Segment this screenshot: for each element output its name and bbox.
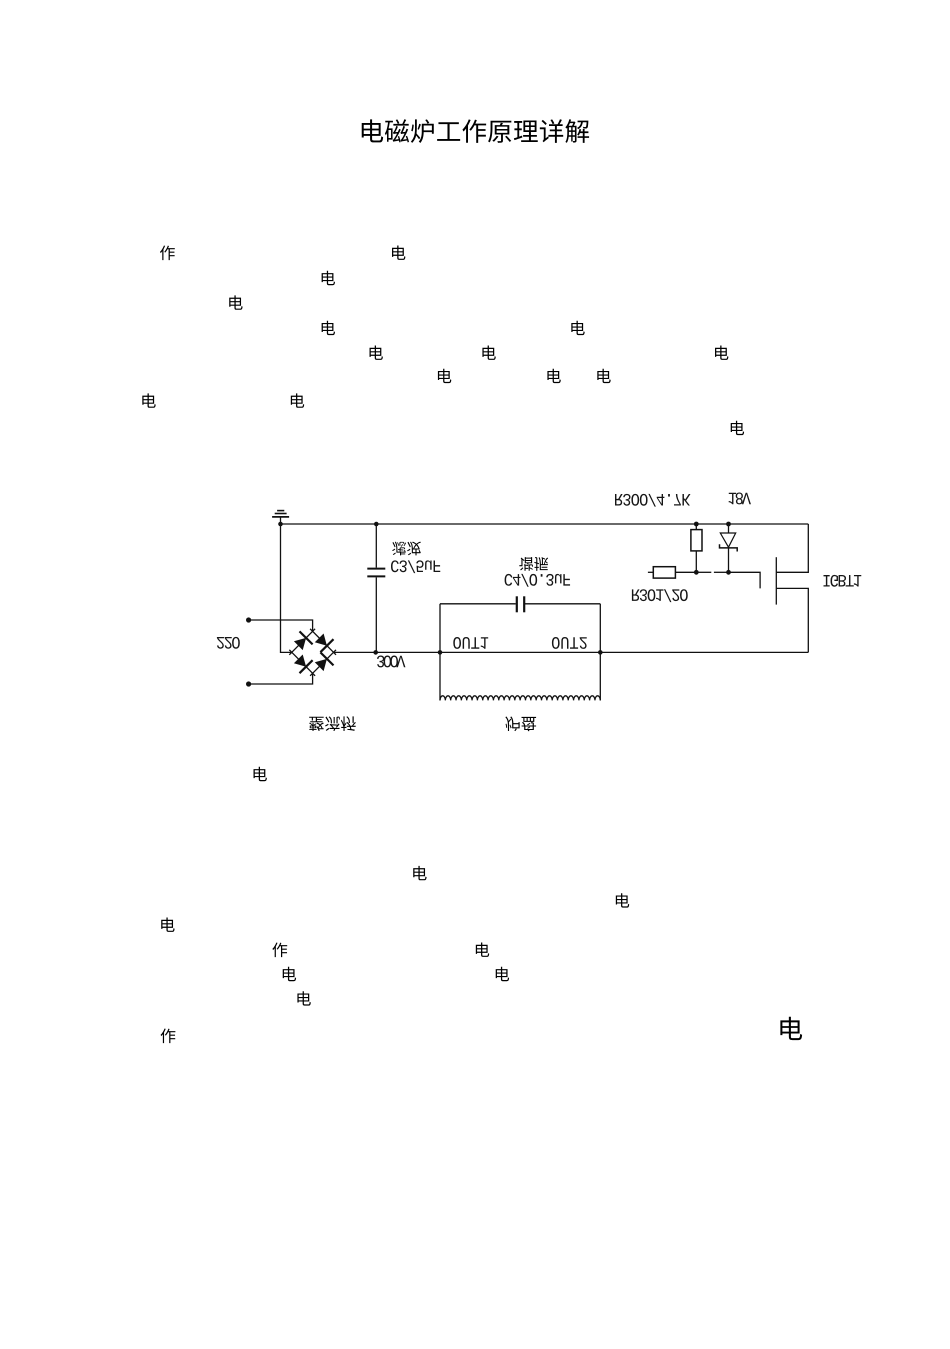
body text large 电 bbox=[780, 1017, 802, 1040]
node: zener top bbox=[726, 522, 731, 527]
label R301/20 (flipped) bbox=[632, 589, 688, 602]
node: 300V junction bbox=[373, 650, 378, 655]
label 炉盘 (flipped) bbox=[505, 716, 536, 731]
node: gate zener bbox=[726, 570, 731, 575]
label 220 (AC input, flipped) bbox=[217, 637, 240, 649]
ground bbox=[272, 511, 289, 524]
document title 电磁炉工作原理详解 bbox=[362, 119, 589, 143]
node: C3 top bbox=[374, 522, 379, 527]
node: tank right bbox=[598, 650, 603, 655]
wire: top rail bbox=[281, 523, 809, 525]
label 滤波 (flipped) bbox=[392, 542, 421, 556]
node: gate R300 bbox=[694, 570, 699, 575]
capacitor C3 bbox=[367, 524, 385, 652]
label OUT2 (flipped) bbox=[552, 637, 587, 649]
node: ground junction bbox=[278, 522, 283, 527]
inductor coil (30 loops) bbox=[440, 696, 600, 701]
body text (partially rendered characters) bbox=[142, 245, 744, 1043]
wire: DC output rail 300V bbox=[334, 651, 809, 653]
label 整流桥 (flipped) bbox=[309, 716, 356, 731]
label 300V (flipped) bbox=[377, 656, 405, 668]
node: tank left bbox=[438, 650, 443, 655]
transistor IGBT1 bbox=[776, 524, 808, 652]
label 谐振 (flipped) bbox=[519, 557, 548, 571]
label IGBT1 (flipped) bbox=[823, 575, 861, 587]
capacitor C4 bbox=[517, 596, 524, 612]
label C3/5uF (flipped) bbox=[391, 560, 440, 573]
zener diode 18V bbox=[720, 524, 738, 572]
label R300/4.7K (flipped) bbox=[615, 494, 690, 507]
wire: gate row with gap bbox=[696, 572, 760, 588]
wire: left branch to bridge bbox=[281, 524, 292, 652]
node: R300 top bbox=[694, 522, 699, 527]
bridge rectifier (4 diodes) bbox=[289, 629, 336, 676]
label OUT1 (flipped) bbox=[453, 637, 488, 649]
resonant tank outline bbox=[440, 604, 600, 701]
label 18V (flipped) bbox=[729, 493, 751, 505]
AC input terminal (top) bbox=[246, 617, 313, 631]
resistor R301 bbox=[648, 567, 696, 578]
label C4/0.3uF (flipped) bbox=[505, 574, 570, 587]
AC input terminal (bottom) bbox=[246, 673, 313, 686]
resistor R300 bbox=[691, 524, 702, 572]
